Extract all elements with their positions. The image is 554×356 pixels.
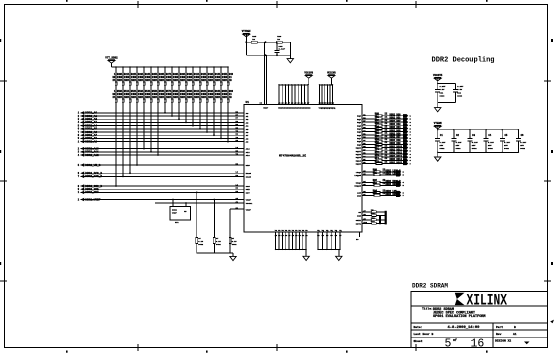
svg-text:VTTREF: VTTREF bbox=[242, 30, 252, 33]
svg-text:0402: 0402 bbox=[472, 147, 478, 150]
svg-text:UDM: UDM bbox=[357, 194, 362, 197]
svg-text:DDR2 SDRAM: DDR2 SDRAM bbox=[412, 282, 448, 289]
svg-text:Title:: Title: bbox=[422, 307, 433, 311]
svg-text:ODT1: ODT1 bbox=[356, 222, 362, 225]
svg-text:Sheet: Sheet bbox=[414, 339, 423, 343]
svg-text:DDR2_A12: DDR2_A12 bbox=[85, 154, 99, 157]
svg-text:LDQS#: LDQS# bbox=[354, 174, 361, 177]
svg-text:DDR2_CAS_B: DDR2_CAS_B bbox=[85, 175, 102, 178]
svg-text:VSSDL: VSSDL bbox=[246, 202, 253, 205]
svg-text:Rev: Rev bbox=[496, 333, 502, 336]
svg-text:DDR2_DQ15: DDR2_DQ15 bbox=[390, 161, 403, 164]
svg-text:A1: A1 bbox=[513, 333, 517, 336]
svg-text:R85: R85 bbox=[373, 192, 378, 195]
svg-text:0402: 0402 bbox=[440, 147, 446, 150]
svg-text:0402: 0402 bbox=[504, 147, 510, 150]
svg-text:0402: 0402 bbox=[520, 147, 526, 150]
svg-text:MT47H64M16HR_3E: MT47H64M16HR_3E bbox=[279, 155, 306, 158]
svg-text:0402: 0402 bbox=[198, 243, 204, 246]
svg-text:VREF: VREF bbox=[172, 211, 178, 214]
svg-text:VTERM: VTERM bbox=[434, 122, 442, 125]
svg-text:VREF: VREF bbox=[246, 209, 252, 212]
svg-text:0402: 0402 bbox=[216, 243, 222, 246]
svg-text:6.3V: 6.3V bbox=[440, 88, 446, 91]
svg-text:DESIGN X2: DESIGN X2 bbox=[495, 340, 511, 343]
svg-text:DDR2_UDM: DDR2_UDM bbox=[386, 193, 398, 196]
svg-text:UDQS#: UDQS# bbox=[354, 184, 361, 187]
svg-text:VTT_DDR2: VTT_DDR2 bbox=[105, 56, 118, 59]
svg-text:CAS#: CAS# bbox=[246, 175, 252, 178]
svg-text:of: of bbox=[453, 338, 457, 342]
svg-text:16: 16 bbox=[471, 338, 485, 351]
svg-text:0603: 0603 bbox=[457, 94, 463, 97]
svg-text:C12: C12 bbox=[371, 220, 376, 223]
svg-text:B: B bbox=[514, 326, 516, 329]
svg-text:DQ15: DQ15 bbox=[356, 163, 362, 166]
svg-text:C10: C10 bbox=[371, 212, 376, 215]
svg-text:R75: R75 bbox=[375, 160, 380, 163]
svg-text:0402: 0402 bbox=[488, 147, 494, 150]
svg-text:DDR2 Decoupling: DDR2 Decoupling bbox=[432, 56, 495, 64]
svg-text:DDR2_WE_B: DDR2_WE_B bbox=[85, 164, 100, 167]
svg-text:XILINX: XILINX bbox=[467, 292, 508, 310]
svg-text:R81: R81 bbox=[373, 172, 378, 175]
svg-text:VCC1V8: VCC1V8 bbox=[327, 71, 336, 74]
svg-text:VCC1V8: VCC1V8 bbox=[304, 71, 313, 74]
svg-text:DDR2_A9: DDR2_A9 bbox=[85, 140, 97, 143]
svg-text:DDR2_VREF: DDR2_VREF bbox=[85, 198, 100, 201]
svg-text:CK#: CK# bbox=[357, 215, 362, 218]
svg-text:WE#: WE# bbox=[246, 164, 251, 167]
svg-text:ODT: ODT bbox=[246, 191, 251, 194]
svg-text:U1: U1 bbox=[246, 101, 250, 104]
svg-text:SP601 EVALUATION PLATFORM: SP601 EVALUATION PLATFORM bbox=[433, 315, 486, 319]
svg-text:VREF: VREF bbox=[263, 107, 269, 110]
svg-text:0.1UF: 0.1UF bbox=[279, 48, 286, 51]
svg-text:DDR2_ODT: DDR2_ODT bbox=[85, 191, 99, 194]
svg-text:5: 5 bbox=[445, 338, 452, 351]
svg-text:0402: 0402 bbox=[232, 243, 238, 246]
svg-text:0603: 0603 bbox=[440, 94, 446, 97]
svg-text:Part: Part bbox=[496, 326, 503, 329]
svg-text:Last Hour B: Last Hour B bbox=[414, 333, 434, 336]
svg-text:6.3V: 6.3V bbox=[457, 88, 463, 91]
svg-text:Date:: Date: bbox=[414, 326, 423, 329]
svg-text:4-8-2009_14:09: 4-8-2009_14:09 bbox=[448, 326, 481, 330]
svg-text:R83: R83 bbox=[373, 182, 378, 185]
svg-text:A12: A12 bbox=[246, 154, 251, 157]
svg-text:VCC2V5: VCC2V5 bbox=[433, 74, 443, 77]
svg-text:0402: 0402 bbox=[456, 147, 462, 150]
